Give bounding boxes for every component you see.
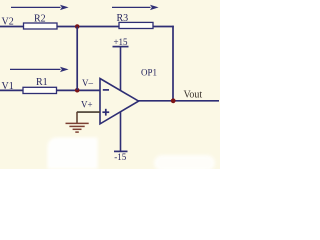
svg-text:R1: R1	[36, 77, 48, 88]
current arrow I1 (above R1)	[10, 67, 69, 72]
wire feedback vertical (node A to V-)	[76, 27, 78, 91]
svg-text:R3: R3	[117, 13, 129, 24]
wire right vertical leg (feedback to output)	[172, 26, 174, 101]
wire V1 to R1	[0, 89, 24, 91]
wire V2 to R2	[0, 26, 24, 28]
resistor R2	[24, 23, 58, 29]
current arrow I2 (above R2)	[11, 5, 69, 10]
junction node A (feedback node)	[75, 24, 80, 29]
resistor R1	[23, 87, 57, 93]
svg-text:V–: V–	[82, 78, 93, 88]
svg-text:R2: R2	[34, 14, 46, 25]
junction node at V- input	[75, 88, 80, 93]
power +15 bar	[113, 46, 129, 48]
svg-text:OP1: OP1	[141, 68, 157, 78]
power -15 bar	[114, 150, 128, 152]
power +15 stem to op-amp V+ supply pin	[120, 47, 122, 91]
resistor R3	[119, 22, 153, 28]
svg-text:+15: +15	[113, 37, 128, 47]
svg-text:-15: -15	[114, 152, 126, 162]
power -15 stem from op-amp V- supply pin	[120, 112, 122, 152]
wire R1 to inverting input	[57, 89, 101, 91]
wire op-amp output to Vout	[139, 100, 220, 102]
svg-text:V+: V+	[81, 100, 93, 110]
op-amp plus input mark	[102, 109, 109, 116]
wire non-inverting input to ground	[77, 111, 100, 113]
junction node Vout	[171, 98, 176, 103]
op-amp minus input mark	[103, 89, 109, 91]
current arrow I3 (above R3)	[112, 5, 159, 10]
ground	[66, 112, 89, 132]
svg-text:Vout: Vout	[184, 89, 203, 100]
op-amp U1 triangle	[100, 79, 139, 124]
wire R2 to node A / R3	[57, 26, 120, 28]
wire R3 to right corner	[153, 26, 174, 28]
